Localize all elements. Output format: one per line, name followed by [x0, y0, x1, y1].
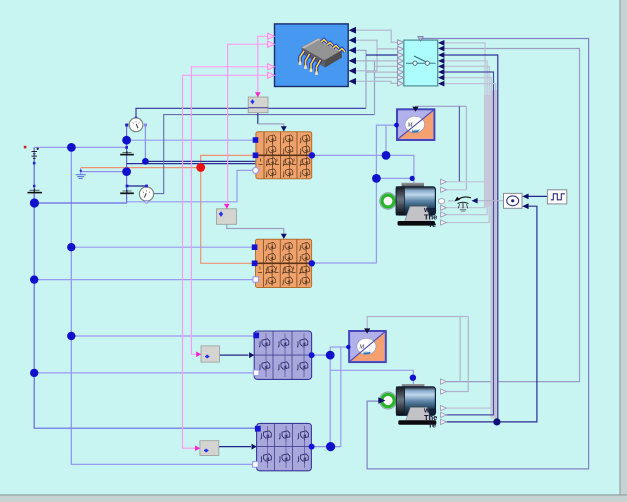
speed sensor SEN1 [504, 193, 523, 208]
wire motor1 port1 [446, 181, 484, 183]
chip input pin arrows pink [268, 33, 275, 78]
wire ground to cap column [81, 171, 127, 173]
wire vm1 top navy [136, 108, 366, 118]
wire navy pair lower [127, 163, 256, 165]
red origin dot [24, 146, 27, 149]
wire cap column x126.6 [126, 125, 128, 203]
wire chip in3 pink [191, 67, 267, 355]
wire drop to port2 [465, 106, 467, 190]
wire bundle underlay band [491, 90, 499, 419]
DSP chip block U1 [275, 24, 349, 87]
wire motor1 terminal down [413, 178, 415, 187]
wire sensor out to load [477, 200, 504, 202]
inverter PUR2 ports [253, 426, 315, 467]
inverter PUR1 ports [253, 333, 314, 376]
voltmeter VM1 [125, 116, 147, 132]
switch block S1 [404, 37, 438, 86]
wire column x71 [71, 147, 255, 464]
capacitor C1 plate [120, 151, 134, 155]
wire switch in6 [366, 71, 403, 73]
wire chip pin6 to switch in8 [356, 81, 403, 83]
wire chip in4 pink [183, 75, 268, 448]
wire left source column x34 [34, 147, 257, 428]
gating block G3 into inverter arrow [249, 352, 254, 358]
wire g4 output navy [219, 446, 251, 448]
inverter INV2 ports [252, 244, 315, 282]
wire vm1 navy rise to switch [356, 50, 366, 108]
wire motor1 shaft stub [448, 200, 454, 202]
svg-text:Te: Te [428, 421, 436, 430]
DC source V1 terminal dots [33, 162, 36, 165]
wire pur2 out [311, 446, 340, 448]
switch left input arrows [398, 40, 404, 86]
wire scope1 drop to port1 [458, 106, 460, 182]
wire chip pin1 to switch in1 [356, 30, 403, 42]
wire switch out1 bundle1 [444, 43, 485, 208]
wire pur chain vertical [329, 347, 331, 447]
wire pur1 plus feed [71, 335, 256, 337]
wire inv2 minus feed [34, 279, 256, 281]
voltmeter VM2 [126, 185, 154, 204]
wire motor1 terminal link [376, 177, 414, 179]
wire salmon down branch [201, 168, 255, 264]
wire g2 output [227, 224, 284, 235]
motor M2 [378, 384, 437, 429]
wire vm2 top navy [127, 185, 147, 187]
wire chip pin4 to switch in4 [356, 60, 403, 62]
wire ground stub [80, 168, 82, 175]
wire scope2 top v2 [446, 317, 468, 392]
wire motor2 port5 navy to sensor [446, 206, 537, 422]
ground symbol [76, 170, 86, 179]
wire inv1 minus feed [127, 170, 256, 201]
motor M1 [380, 183, 438, 229]
wire chip pin5 [356, 70, 377, 72]
wire switch in7 [375, 77, 404, 79]
gating block G4 [195, 441, 219, 456]
wire V1+ top horizontal [34, 146, 126, 148]
square wave source SQ1 [547, 190, 566, 204]
wire switch out6 bundle5 navy [444, 72, 494, 415]
wire g1 output stub navy [257, 113, 259, 124]
motor M1 shaft port circle [438, 199, 444, 204]
wire navy pair upper [145, 160, 256, 162]
wire crossing gating block G1 [248, 107, 268, 109]
wire switch out5 bundle3 [444, 66, 489, 222]
window border right strip [620, 0, 627, 502]
wire scope1 branch [385, 125, 387, 155]
DC source V1 negative plate [28, 189, 43, 193]
window border right line [619, 0, 620, 502]
DC source V1 battery glyph [32, 148, 40, 159]
red junction dot [196, 163, 205, 172]
wire switch in3 navy [366, 54, 403, 56]
inverter bridge INV2 orange [256, 239, 312, 287]
gating block G2 [216, 204, 236, 224]
wire chip in1 pink [258, 36, 268, 94]
wire switch out4 bundle2 [444, 61, 487, 215]
wire scope1 top horizontal [415, 105, 466, 107]
switch right input arrows navy [438, 40, 444, 87]
arrowhead pulse into sensor [522, 194, 528, 200]
wire bundle underlay band upper [484, 95, 491, 207]
wire pur1 out to junction [312, 354, 331, 356]
wire scope2 top [367, 317, 468, 331]
inverter bridge PUR1 purple [254, 331, 311, 379]
wire pur1 minus feed [34, 372, 256, 374]
node square on cap column [125, 146, 128, 149]
wire vm1 right terminal drop [144, 125, 146, 161]
gating block G3 [196, 346, 219, 362]
wire switch out7 bundle4 [444, 78, 491, 409]
wire switch out8 bundle6 [444, 84, 496, 419]
gating block G1 into inverter arrow [281, 126, 287, 131]
wire switch in2 [377, 48, 403, 50]
wire scope2 top v1 [459, 317, 461, 382]
wire pur2 chain vertical2 [340, 347, 342, 447]
wire node2 bottom horizontal [34, 202, 127, 204]
motor M1 output port arrows [441, 179, 447, 225]
wire chip in2 pink [228, 44, 268, 203]
wire pulse to sensor [525, 195, 547, 197]
gating block G2 into inverter arrow [281, 234, 287, 239]
chip right input pin arrows navy [349, 27, 356, 85]
wire scope1 input [312, 125, 397, 263]
arrowhead bundle into sensor lower [522, 203, 528, 209]
wire switch top loop to motor2 ring [367, 39, 588, 469]
wire motor1 port2 [446, 189, 466, 191]
svg-text:Te: Te [428, 220, 436, 229]
scope SC2 [349, 328, 386, 362]
wire inv1 plus feed [127, 139, 256, 141]
capacitor C2 plate [120, 190, 134, 194]
wire vm2 navy rise to pin5 [356, 61, 375, 115]
wire vm2 top stub [146, 186, 148, 188]
gating block G1 [248, 92, 268, 113]
wire vm2 right to rise [154, 115, 375, 194]
wire inv2 plus feed [71, 246, 254, 248]
window border bottom strip [0, 495, 627, 502]
inverter bridge INV1 orange [256, 132, 312, 179]
wire g1 output L [258, 124, 284, 128]
inverter INV1 ports [253, 137, 315, 173]
wire phase node A: inv1 out to motor1 [312, 155, 414, 178]
wire motor2 terminal [330, 370, 413, 387]
inverter bridge PUR2 purple [257, 423, 312, 470]
scope SC1 [397, 107, 434, 140]
navy junction dot near bundle [493, 418, 500, 425]
wire chip pin2 [356, 40, 377, 71]
window border bottom line [0, 494, 627, 496]
wire salmon dc rail [81, 155, 256, 167]
wire switch out3 bundle7 navy [444, 55, 498, 422]
mechanical load L1 glyph [454, 197, 477, 212]
wire switch in5 [375, 65, 404, 67]
gating block G4 into inverter arrow [252, 444, 257, 450]
wire switch out2 to motor2 port1 [444, 49, 580, 382]
motor M2 output port arrows [441, 379, 447, 425]
wire g3 output navy [220, 354, 249, 356]
wire scope2 input horizontal [330, 346, 348, 348]
